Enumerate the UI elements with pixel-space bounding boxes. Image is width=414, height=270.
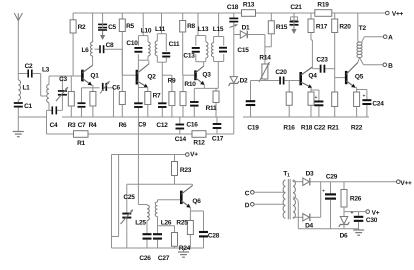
svg-text:R24: R24 xyxy=(179,245,191,252)
transistor Q1 xyxy=(82,65,99,85)
transformer T2 xyxy=(357,13,384,65)
tank L10 C10 xyxy=(126,13,151,60)
svg-text:C24: C24 xyxy=(372,100,384,107)
svg-text:R11: R11 xyxy=(206,105,217,112)
svg-text:V++: V++ xyxy=(400,180,412,187)
svg-text:Q4: Q4 xyxy=(308,72,317,79)
svg-text:C6: C6 xyxy=(112,84,120,91)
wire Q3 base xyxy=(183,74,194,76)
tank L11 C11 xyxy=(155,13,180,62)
svg-text:L1: L1 xyxy=(22,84,30,91)
svg-text:R19: R19 xyxy=(317,1,329,8)
terminal V++ psu xyxy=(397,180,413,187)
inductor L26 xyxy=(155,200,172,231)
wire V+ feed xyxy=(112,154,186,156)
resistor R18 xyxy=(301,88,314,132)
svg-text:D1: D1 xyxy=(242,24,250,31)
resistor R2 xyxy=(70,13,86,76)
svg-text:R3: R3 xyxy=(68,122,76,129)
ground psu xyxy=(353,229,364,235)
zener diode D2 xyxy=(229,77,248,117)
resistor R7 xyxy=(145,92,161,118)
svg-text:C10: C10 xyxy=(126,40,138,47)
wire Q3 collector xyxy=(203,62,205,66)
wire left ground rail segment B xyxy=(62,116,234,118)
terminal V+ psu xyxy=(366,210,380,217)
resistor R22 xyxy=(351,88,363,132)
svg-text:D6: D6 xyxy=(340,232,348,239)
svg-text:R26: R26 xyxy=(350,195,362,202)
capacitor C21 xyxy=(290,4,303,34)
svg-text:T2: T2 xyxy=(359,25,367,32)
svg-text:C21: C21 xyxy=(290,4,302,11)
resistor R20 xyxy=(332,13,352,78)
svg-text:C1: C1 xyxy=(24,103,32,110)
svg-text:C2: C2 xyxy=(25,63,33,70)
wire L15 tank down to R11 xyxy=(217,62,219,89)
capacitor C23 xyxy=(312,56,334,72)
svg-text:C29: C29 xyxy=(326,173,338,180)
svg-text:R18: R18 xyxy=(301,124,313,131)
svg-text:R15: R15 xyxy=(276,24,288,31)
capacitor C24 xyxy=(357,90,385,118)
svg-text:C23: C23 xyxy=(316,56,328,63)
resistor R15 xyxy=(268,13,287,47)
capacitor C2 xyxy=(18,63,40,78)
wire T1 secondary top xyxy=(293,180,303,182)
svg-text:+: + xyxy=(315,95,318,101)
wire C1 to ground xyxy=(17,117,19,132)
svg-text:R5: R5 xyxy=(126,23,134,30)
wire T1 secondary bottom xyxy=(293,217,303,218)
wire Q1 emitter node xyxy=(82,85,93,91)
svg-text:R14: R14 xyxy=(259,54,271,61)
svg-text:Q6: Q6 xyxy=(192,198,201,205)
svg-text:C30: C30 xyxy=(366,217,378,224)
svg-text:L15: L15 xyxy=(213,26,224,33)
svg-text:Q5: Q5 xyxy=(355,73,364,80)
ground below C1 xyxy=(13,132,24,137)
potentiometer R14 xyxy=(259,54,271,82)
resistor R16 xyxy=(283,81,295,132)
svg-text:C13: C13 xyxy=(183,52,195,59)
wire lower rail with R1/R12 xyxy=(47,110,234,134)
diode D3 xyxy=(303,170,397,185)
svg-text:L6: L6 xyxy=(81,47,89,54)
wire D4 riser xyxy=(320,182,322,218)
wire left ground rail segment A xyxy=(18,116,46,118)
svg-text:C16: C16 xyxy=(186,121,198,128)
resistor R11 xyxy=(206,88,219,117)
resistor R8 xyxy=(180,13,196,75)
wire antenna tap to coil L3 xyxy=(41,74,46,97)
svg-text:R4: R4 xyxy=(89,122,97,129)
capacitor C22 xyxy=(311,90,326,132)
transistor Q6 xyxy=(181,186,201,208)
svg-text:L25: L25 xyxy=(135,219,146,226)
svg-text:C25: C25 xyxy=(123,194,135,201)
svg-text:L11: L11 xyxy=(155,26,166,33)
capacitor C5 xyxy=(98,13,116,40)
wire Q3 emitter node xyxy=(194,85,218,89)
capacitor C8 xyxy=(95,42,123,53)
svg-text:R2: R2 xyxy=(78,24,86,31)
inductor L25 xyxy=(135,205,149,232)
svg-text:C17: C17 xyxy=(212,135,224,142)
svg-text:T1: T1 xyxy=(283,170,290,178)
wire Q1 collector xyxy=(92,56,94,65)
wire emitter to C28 xyxy=(190,210,203,212)
terminal D input xyxy=(245,202,284,209)
wire C18 column xyxy=(233,23,235,76)
svg-text:R13: R13 xyxy=(243,1,255,8)
wire osc bottom rail xyxy=(112,247,204,249)
transistor Q5 xyxy=(346,63,364,88)
svg-text:A: A xyxy=(388,34,393,41)
svg-text:C14: C14 xyxy=(175,136,187,143)
wire V+ line xyxy=(344,211,366,213)
svg-text:C8: C8 xyxy=(106,42,114,49)
transformer T1 xyxy=(283,170,295,219)
capacitor C28 xyxy=(199,211,220,248)
capacitor C16 xyxy=(186,88,198,128)
resistor R6 xyxy=(119,75,127,129)
resistor R3 xyxy=(68,76,76,129)
wire Q6 collector xyxy=(192,184,194,185)
resistor R24 xyxy=(172,226,191,252)
wire R17 to Q4 collector xyxy=(311,40,312,69)
tank L15 C15 xyxy=(211,13,249,62)
terminal V++ top xyxy=(386,11,404,18)
ground osc xyxy=(178,248,189,257)
svg-text:Q3: Q3 xyxy=(202,71,211,78)
resistor R12 xyxy=(192,131,206,147)
svg-text:B: B xyxy=(388,63,393,70)
capacitor C19 xyxy=(246,81,259,132)
resistor R10 xyxy=(180,75,196,117)
svg-text:+: + xyxy=(351,211,354,217)
svg-text:Q1: Q1 xyxy=(90,72,99,79)
terminal V+ mid xyxy=(186,151,199,158)
svg-text:C26: C26 xyxy=(139,255,151,262)
svg-text:C18: C18 xyxy=(227,4,239,11)
capacitor C26 xyxy=(139,231,151,262)
svg-text:R7: R7 xyxy=(153,92,161,99)
antenna xyxy=(14,13,22,74)
svg-text:V++: V++ xyxy=(392,11,404,18)
capacitor C12 xyxy=(156,101,168,129)
resistor R17 xyxy=(308,13,328,40)
svg-text:R8: R8 xyxy=(187,23,195,30)
resistor R26 xyxy=(341,182,362,212)
terminal A xyxy=(383,34,393,41)
capacitor C30 xyxy=(351,211,378,229)
terminal C input xyxy=(245,190,284,197)
svg-text:R9: R9 xyxy=(168,77,176,84)
wire osc inner leg xyxy=(112,155,119,237)
trimmer capacitor C25 xyxy=(121,184,136,248)
svg-text:C3: C3 xyxy=(59,76,67,83)
wire osc left leg xyxy=(111,155,113,249)
resistor R19 xyxy=(315,1,332,16)
wire T1 center tap xyxy=(293,197,298,229)
svg-text:+: + xyxy=(322,189,325,195)
resistor R9 xyxy=(168,75,176,117)
inductor L1 xyxy=(18,74,30,102)
svg-text:R17: R17 xyxy=(316,23,328,30)
svg-text:C27: C27 xyxy=(158,255,170,262)
svg-text:C12: C12 xyxy=(156,122,168,129)
svg-text:D: D xyxy=(245,202,250,209)
transistor Q3 xyxy=(196,66,212,85)
capacitor C18 xyxy=(227,4,239,28)
capacitor C1 xyxy=(14,101,33,117)
svg-text:C9: C9 xyxy=(138,121,146,128)
svg-text:V+: V+ xyxy=(190,151,198,158)
capacitor C29 xyxy=(322,173,338,228)
capacitor C7 xyxy=(78,88,87,129)
svg-text:+: + xyxy=(363,94,366,100)
svg-text:R6: R6 xyxy=(119,122,127,129)
trimmer capacitor C3 xyxy=(56,76,68,110)
wire L26 bottom to R24 xyxy=(158,225,175,227)
transistor Q4 xyxy=(301,67,318,88)
svg-text:C19: C19 xyxy=(247,124,259,131)
svg-text:L3: L3 xyxy=(42,66,50,73)
capacitor C27 xyxy=(153,231,170,262)
wire top supply rail xyxy=(73,12,386,14)
svg-text:L10: L10 xyxy=(141,27,152,34)
inductor L6 xyxy=(81,13,92,56)
wire R15 to R14 xyxy=(265,35,271,65)
svg-text:R12: R12 xyxy=(193,139,205,146)
diode D1 xyxy=(234,24,265,38)
svg-text:C4: C4 xyxy=(50,122,58,129)
svg-text:C20: C20 xyxy=(275,69,287,76)
resistor R5 xyxy=(119,13,134,75)
svg-text:D3: D3 xyxy=(306,170,314,177)
wire right ground rail xyxy=(243,116,369,118)
resistor R1 xyxy=(74,131,89,147)
wire Q2 emitter node xyxy=(138,88,147,92)
svg-text:D2: D2 xyxy=(240,77,248,84)
inductor L3 xyxy=(42,66,50,110)
svg-text:R10: R10 xyxy=(184,81,196,88)
svg-text:R20: R20 xyxy=(339,23,351,30)
svg-text:Q2: Q2 xyxy=(147,73,156,80)
svg-text:R21: R21 xyxy=(327,124,339,131)
svg-text:C11: C11 xyxy=(169,41,180,48)
resistor R25 xyxy=(176,208,193,248)
capacitor C9 xyxy=(134,101,146,129)
wire osc collector bus xyxy=(127,183,193,185)
svg-text:V+: V+ xyxy=(372,210,380,217)
svg-text:R16: R16 xyxy=(283,124,295,131)
resistor R4 xyxy=(89,92,97,130)
wire Q1 base xyxy=(49,75,81,77)
svg-text:C7: C7 xyxy=(78,122,86,129)
resistor R23 xyxy=(172,155,192,185)
svg-text:L13: L13 xyxy=(198,26,209,33)
zener diode D6 xyxy=(339,212,350,240)
svg-text:C15: C15 xyxy=(237,47,249,54)
svg-text:C22: C22 xyxy=(314,124,326,131)
svg-text:R22: R22 xyxy=(351,124,363,131)
capacitor C20 xyxy=(275,69,300,85)
transistor Q2 xyxy=(137,64,156,88)
wire psu ground rail xyxy=(298,228,358,230)
diode D4 xyxy=(303,214,321,230)
svg-text:R1: R1 xyxy=(77,140,85,147)
svg-text:R25: R25 xyxy=(176,219,188,226)
capacitor C17 xyxy=(212,117,224,143)
trimmer capacitor C6 xyxy=(93,81,121,117)
capacitor C14 xyxy=(175,117,187,143)
wire R1 rail down to L25 xyxy=(138,117,147,205)
svg-text:C5: C5 xyxy=(108,24,116,31)
wire tank L10 down to C9 xyxy=(137,60,139,101)
tank L13 C13 xyxy=(183,13,208,62)
wire Q5 base xyxy=(335,77,345,79)
terminal B xyxy=(383,63,393,70)
svg-text:C: C xyxy=(245,190,250,197)
svg-text:R23: R23 xyxy=(180,167,192,174)
wire Q2 base xyxy=(122,49,136,75)
wire Q6 base xyxy=(158,199,181,201)
wire L11 tank down / R9 tap xyxy=(162,62,172,101)
wire detector output xyxy=(251,80,279,82)
capacitor C4 xyxy=(47,106,63,129)
resistor R13 xyxy=(242,1,256,16)
svg-text:C28: C28 xyxy=(208,232,220,239)
resistor R21 xyxy=(327,78,339,132)
wire Q2 collector xyxy=(148,60,150,64)
